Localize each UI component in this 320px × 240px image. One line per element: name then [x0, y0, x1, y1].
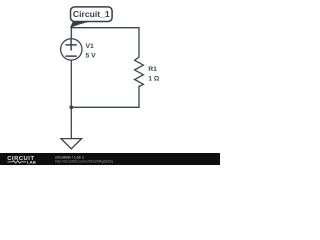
- svg-text:5 V: 5 V: [86, 52, 97, 59]
- svg-text:http://circuitlab.com/c/5ba29f: http://circuitlab.com/c/5ba29f4g6a93q: [55, 159, 113, 163]
- svg-text:Circuit_1: Circuit_1: [73, 9, 110, 19]
- svg-text:LAB: LAB: [27, 160, 36, 165]
- svg-text:V1: V1: [86, 43, 95, 50]
- svg-text:R1: R1: [148, 66, 157, 73]
- svg-text:1 Ω: 1 Ω: [148, 75, 160, 82]
